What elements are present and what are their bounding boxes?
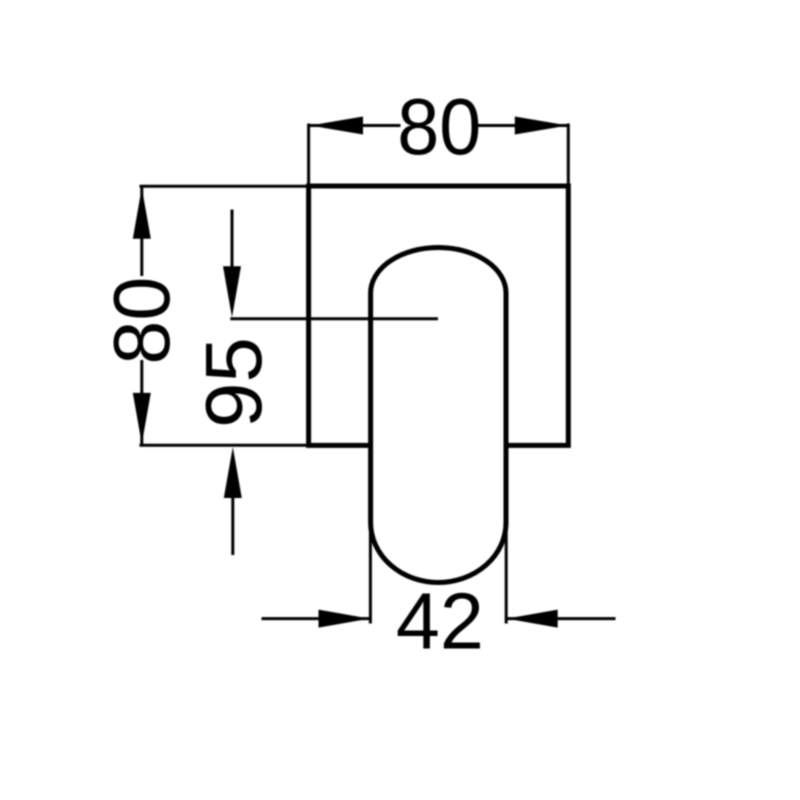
svg-text:80: 80	[97, 277, 186, 365]
top dim arrowhead right	[515, 117, 568, 135]
95 dim horizontal reference line to slot arc centre	[230, 317, 438, 320]
42 dim extension line right	[505, 525, 508, 624]
top dim extension line left	[307, 124, 310, 189]
left dim line lower segment	[140, 360, 143, 444]
svg-text:80: 80	[397, 82, 481, 171]
stadium slot (drawn after square so fill hides square bottom edge)	[371, 248, 506, 583]
95 dim upper line	[231, 210, 234, 268]
42 dim extension line left	[369, 525, 372, 624]
42 dim arrowhead pointing left	[507, 610, 558, 628]
95 dim arrowhead up	[224, 447, 242, 498]
42 dim line left segment	[262, 617, 370, 620]
42 dim line right segment	[508, 617, 616, 620]
left dim extension line bottom	[140, 444, 312, 447]
square plate outline	[309, 186, 569, 445]
left dim extension line top	[140, 185, 312, 188]
top dim line right segment	[478, 124, 568, 127]
42 dim arrowhead pointing right	[319, 610, 370, 628]
left dim line upper segment	[140, 188, 143, 277]
95 dim arrowhead down	[223, 266, 241, 317]
left dim arrowhead up	[133, 188, 151, 239]
svg-text:42: 42	[396, 577, 484, 666]
top dim line left segment	[310, 124, 401, 127]
svg-text:95: 95	[189, 337, 278, 428]
top dim arrowhead left	[310, 117, 363, 135]
left dim arrowhead down	[133, 393, 151, 444]
top dim extension line right	[567, 124, 570, 189]
95 dim lower line	[231, 498, 234, 555]
